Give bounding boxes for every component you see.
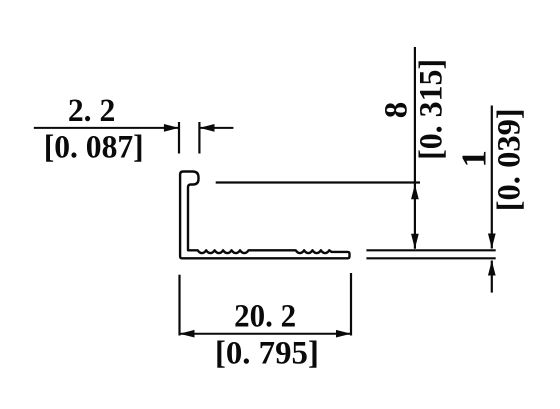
dim 2.2: left arrowhead [164, 124, 179, 132]
dim 20.2: left arrowhead [180, 330, 195, 338]
svg-text:[0. 315]: [0. 315] [414, 59, 450, 160]
dim 2.2: right extension line [198, 122, 200, 154]
dim 2.2: dimension line left segment [34, 127, 178, 129]
dim 8: top reference line [216, 181, 420, 183]
svg-text:8: 8 [379, 102, 415, 119]
svg-text:2. 2: 2. 2 [68, 93, 116, 129]
svg-text:[0. 087]: [0. 087] [44, 130, 144, 166]
dim 20.2: left extension line [178, 275, 180, 336]
dim 8: vertical dimension line [414, 47, 416, 249]
tile backing plate: top line [366, 249, 495, 251]
dim 2.2: right arrowhead [200, 124, 215, 132]
profile outline (L-shaped trim cross-section with serrated base) [180, 172, 349, 259]
dim 8: down arrowhead [411, 234, 419, 249]
dim 1: upper dimension line [491, 106, 493, 249]
dim 20.2: dimension line [180, 333, 352, 335]
svg-text:1: 1 [455, 150, 494, 168]
dim 8: up arrowhead [411, 184, 419, 199]
dim 1: lower dimension line [491, 261, 493, 293]
dim 20.2: right extension line [350, 273, 352, 336]
dim 1: up arrowhead [488, 261, 496, 276]
dim 2.2: dimension line right segment [200, 127, 234, 129]
dim 2.2: left extension line [178, 122, 180, 154]
svg-text:[0. 039]: [0. 039] [492, 108, 528, 211]
tile backing plate: bottom line [366, 257, 495, 259]
svg-text:[0. 795]: [0. 795] [215, 336, 319, 372]
dim 1: down arrowhead [488, 234, 496, 249]
dim 20.2: right arrowhead [336, 330, 351, 338]
svg-text:20. 2: 20. 2 [234, 299, 296, 335]
